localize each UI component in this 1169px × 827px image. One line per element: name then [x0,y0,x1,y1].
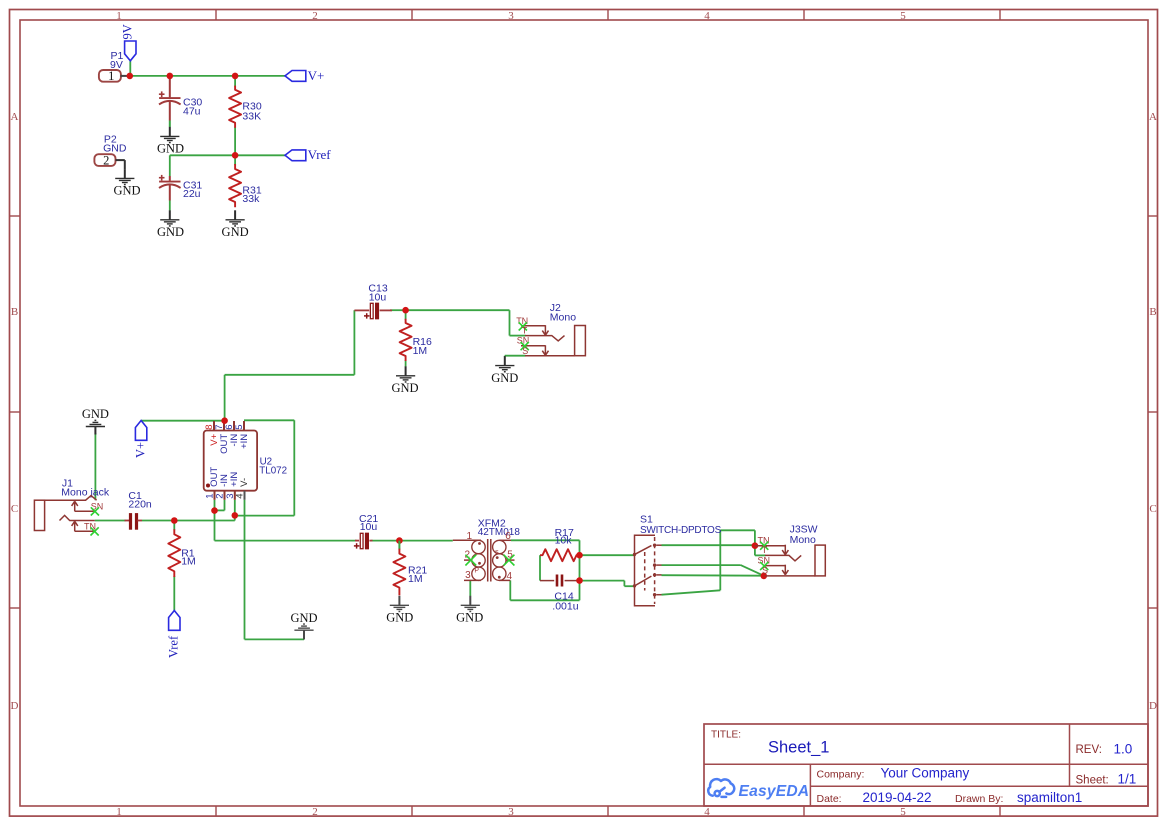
svg-text:C: C [1149,503,1156,515]
svg-text:SN: SN [758,555,771,565]
svg-text:1: 1 [116,10,122,22]
svg-text:Sheet:: Sheet: [1076,775,1109,787]
svg-text:GND: GND [456,611,483,625]
svg-text:EasyEDA: EasyEDA [739,783,810,800]
svg-text:GND: GND [391,381,418,395]
svg-text:10u: 10u [360,521,378,533]
svg-text:4: 4 [507,571,513,582]
svg-text:5: 5 [900,10,906,22]
svg-text:2: 2 [312,10,318,22]
svg-text:3: 3 [508,10,514,22]
svg-text:B: B [11,306,18,318]
svg-text:3: 3 [465,570,471,581]
svg-text:10u: 10u [369,291,387,303]
svg-text:Mono: Mono [550,312,576,324]
svg-text:33k: 33k [242,193,260,205]
svg-text:P: P [474,567,479,574]
svg-text:B: B [1149,306,1156,318]
svg-text:1/1: 1/1 [1118,772,1137,787]
svg-text:s: s [495,549,499,556]
svg-text:Mono: Mono [790,534,816,546]
svg-text:42TM018: 42TM018 [478,527,521,538]
svg-text:1: 1 [467,531,473,542]
svg-text:GND: GND [157,225,184,239]
svg-text:22u: 22u [183,188,201,200]
svg-text:3: 3 [508,806,514,818]
svg-text:220n: 220n [128,498,152,510]
svg-text:GND: GND [491,371,518,385]
svg-text:A: A [1149,111,1157,123]
svg-text:4: 4 [704,10,710,22]
svg-text:REV:: REV: [1076,744,1102,756]
svg-text:T: T [762,545,768,555]
svg-text:GND: GND [113,184,140,198]
svg-text:1M: 1M [413,345,428,357]
svg-text:TL072: TL072 [259,465,287,476]
svg-text:Sheet_1: Sheet_1 [768,739,829,757]
svg-text:V-: V- [239,478,250,487]
svg-text:33K: 33K [242,110,261,122]
svg-text:T: T [522,325,528,335]
svg-text:1: 1 [116,806,122,818]
svg-text:Your Company: Your Company [881,765,970,780]
svg-text:+IN: +IN [239,434,250,449]
svg-text:5: 5 [234,425,245,430]
svg-text:Vref: Vref [308,147,332,162]
svg-text:Date:: Date: [817,793,842,805]
svg-text:GND: GND [157,142,184,156]
svg-text:Company:: Company: [817,768,865,780]
svg-text:5: 5 [900,806,906,818]
svg-text:1: 1 [108,69,114,83]
svg-text:GND: GND [386,611,413,625]
svg-text:V+: V+ [133,442,147,458]
svg-text:GND: GND [222,225,249,239]
svg-text:9V: 9V [120,24,134,39]
svg-text:6: 6 [505,531,511,542]
svg-text:S1: S1 [640,514,653,526]
svg-text:GND: GND [82,407,109,421]
svg-text:47u: 47u [183,105,201,117]
svg-text:D: D [1149,700,1157,712]
svg-text:1M: 1M [408,573,423,585]
svg-text:10k: 10k [555,534,573,546]
svg-text:1M: 1M [181,556,196,568]
svg-text:V+: V+ [308,68,325,83]
svg-text:C: C [11,503,18,515]
svg-text:Vref: Vref [167,635,181,658]
svg-text:D: D [11,700,19,712]
svg-text:1.0: 1.0 [1114,742,1133,757]
svg-text:Mono jack: Mono jack [61,487,110,499]
svg-text:SWITCH-DPDTOS: SWITCH-DPDTOS [640,525,722,536]
svg-text:2: 2 [312,806,318,818]
svg-text:S: S [522,346,528,356]
svg-text:A: A [11,111,19,123]
svg-text:2: 2 [103,153,109,167]
svg-text:4: 4 [704,806,710,818]
svg-text:4: 4 [235,494,246,499]
svg-text:2019-04-22: 2019-04-22 [863,790,932,805]
svg-text:.001u: .001u [552,600,578,612]
svg-text:S: S [762,566,768,576]
svg-text:TITLE:: TITLE: [711,730,741,741]
svg-text:Drawn By:: Drawn By: [955,793,1003,805]
svg-text:GND: GND [290,611,317,625]
svg-text:spamilton1: spamilton1 [1017,790,1082,805]
